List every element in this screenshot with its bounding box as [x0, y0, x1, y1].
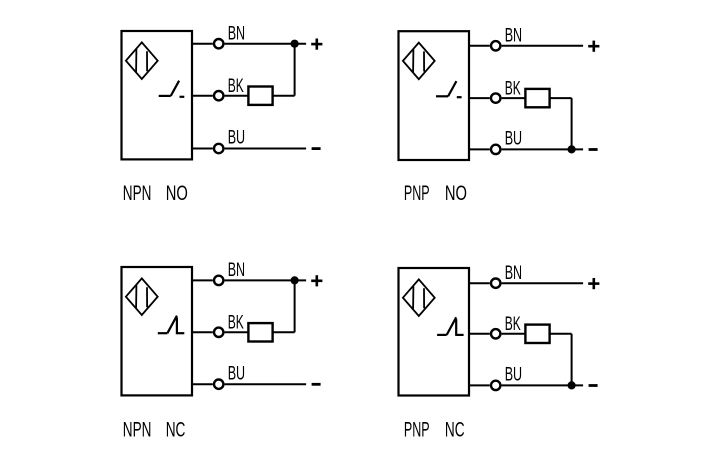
- wire: BU to - (NPN NC): [225, 383, 307, 385]
- wire: load riser to BN (NPN NC): [294, 280, 296, 332]
- svg-text:BU: BU: [505, 364, 522, 386]
- - supply terminal (NPN NC): [312, 383, 321, 386]
- svg-text:BN: BN: [228, 259, 245, 281]
- wire: BU to - (PNP NO): [502, 148, 583, 150]
- sensor body outline (NPN NO): [122, 31, 193, 159]
- svg-text:BN: BN: [505, 25, 522, 47]
- wire: BK terminal to load (NPN NO): [225, 95, 249, 97]
- wire: load dropper to BU (PNP NO): [571, 98, 573, 149]
- wire: load dropper to BU (PNP NC): [571, 334, 573, 386]
- svg-text:NPN: NPN: [123, 180, 152, 205]
- wire: BN to + (PNP NC): [502, 282, 583, 284]
- + supply terminal (NPN NC): [311, 275, 322, 286]
- wire: BU to - (NPN NO): [225, 148, 307, 150]
- terminal circle BN (PNP NC): [491, 279, 500, 288]
- terminal circle BK (NPN NO): [214, 91, 223, 100]
- terminal circle BU (NPN NO): [214, 144, 223, 153]
- svg-text:BK: BK: [505, 313, 521, 335]
- junction dot on BU (PNP NO): [568, 145, 576, 153]
- caption PNP NO: [404, 180, 467, 205]
- + supply terminal (PNP NC): [588, 278, 599, 289]
- wire: load to corner (NPN NC): [273, 331, 295, 333]
- junction dot on BN (NPN NO): [291, 40, 299, 48]
- junction dot on BN (NPN NC): [291, 276, 299, 284]
- wire: load riser to BN (NPN NO): [294, 44, 296, 96]
- caption PNP NC: [404, 416, 465, 441]
- wire: BU to - (PNP NC): [502, 384, 583, 386]
- - supply terminal (PNP NC): [589, 384, 598, 387]
- + supply terminal (NPN NO): [311, 39, 322, 50]
- wire: box to BN terminal (NPN NO): [192, 43, 213, 45]
- wire: box to BK terminal (PNP NC): [469, 333, 490, 335]
- svg-text:NC: NC: [166, 416, 186, 441]
- wire: box to BU terminal (NPN NC): [192, 383, 213, 385]
- svg-text:NPN: NPN: [123, 416, 152, 441]
- wire: BK terminal to load (PNP NC): [502, 333, 526, 335]
- load resistor (PNP NC): [525, 325, 549, 343]
- svg-text:PNP: PNP: [404, 416, 430, 441]
- svg-text:BK: BK: [505, 78, 521, 100]
- proximity-sensor diamond symbol (NPN NC): [126, 278, 158, 315]
- terminal circle BN (NPN NC): [214, 276, 223, 285]
- - supply terminal (PNP NO): [589, 148, 598, 151]
- caption NPN NC: [123, 416, 186, 441]
- wire: box to BK terminal (NPN NC): [192, 331, 213, 333]
- NO switch contact symbol (NPN NO): [159, 81, 185, 97]
- wire: load to corner (NPN NO): [273, 95, 295, 97]
- load resistor (PNP NO): [525, 89, 549, 107]
- sensor body outline (NPN NC): [122, 267, 193, 395]
- wire: BN to + (PNP NO): [502, 45, 583, 47]
- wire: BK terminal to load (PNP NO): [502, 97, 526, 99]
- wire: box to BN terminal (PNP NC): [469, 282, 490, 284]
- NO switch contact symbol (PNP NO): [436, 81, 462, 97]
- terminal circle BU (PNP NO): [491, 145, 500, 154]
- caption NPN NO: [123, 180, 188, 205]
- load resistor (NPN NO): [248, 87, 272, 105]
- terminal circle BK (NPN NC): [214, 328, 223, 337]
- proximity-sensor diamond symbol (PNP NC): [403, 279, 435, 316]
- proximity-sensor diamond symbol (NPN NO): [126, 42, 158, 79]
- sensor body outline (PNP NC): [399, 268, 470, 396]
- wire: box to BK terminal (PNP NO): [469, 97, 490, 99]
- svg-text:NO: NO: [166, 180, 188, 205]
- sensor body outline (PNP NO): [399, 31, 470, 160]
- - supply terminal (NPN NO): [312, 147, 321, 150]
- NC switch contact symbol (PNP NC): [437, 317, 464, 336]
- svg-text:BU: BU: [228, 127, 245, 149]
- wire: box to BU terminal (PNP NC): [469, 384, 490, 386]
- wire: box to BN terminal (NPN NC): [192, 279, 213, 281]
- terminal circle BN (NPN NO): [214, 39, 223, 48]
- wire: load to corner (PNP NC): [550, 333, 572, 335]
- wire: box to BK terminal (NPN NO): [192, 95, 213, 97]
- svg-text:NC: NC: [445, 416, 465, 441]
- svg-text:BU: BU: [228, 362, 245, 384]
- load resistor (NPN NC): [248, 323, 272, 341]
- wire: box to BU terminal (NPN NO): [192, 148, 213, 150]
- proximity-sensor diamond symbol (PNP NO): [403, 43, 435, 80]
- terminal circle BK (PNP NO): [491, 93, 500, 102]
- wire: BN to + (NPN NC): [225, 279, 307, 281]
- wire: load to corner (PNP NO): [550, 97, 572, 99]
- wire: box to BN terminal (PNP NO): [469, 45, 490, 47]
- terminal circle BN (PNP NO): [491, 41, 500, 50]
- junction dot on BU (PNP NC): [568, 381, 576, 389]
- + supply terminal (PNP NO): [588, 41, 599, 52]
- terminal circle BU (NPN NC): [214, 380, 223, 389]
- svg-text:BK: BK: [228, 75, 244, 97]
- svg-text:BK: BK: [228, 312, 244, 334]
- wire: BK terminal to load (NPN NC): [225, 331, 249, 333]
- svg-text:BN: BN: [505, 262, 522, 284]
- svg-text:NO: NO: [445, 180, 467, 205]
- terminal circle BK (PNP NC): [491, 329, 500, 338]
- NC switch contact symbol (NPN NC): [158, 316, 185, 335]
- wire: box to BU terminal (PNP NO): [469, 148, 490, 150]
- svg-text:BU: BU: [505, 128, 522, 150]
- terminal circle BU (PNP NC): [491, 381, 500, 390]
- svg-text:BN: BN: [228, 23, 245, 45]
- svg-text:PNP: PNP: [404, 180, 430, 205]
- wire: BN to + (NPN NO): [225, 43, 307, 45]
